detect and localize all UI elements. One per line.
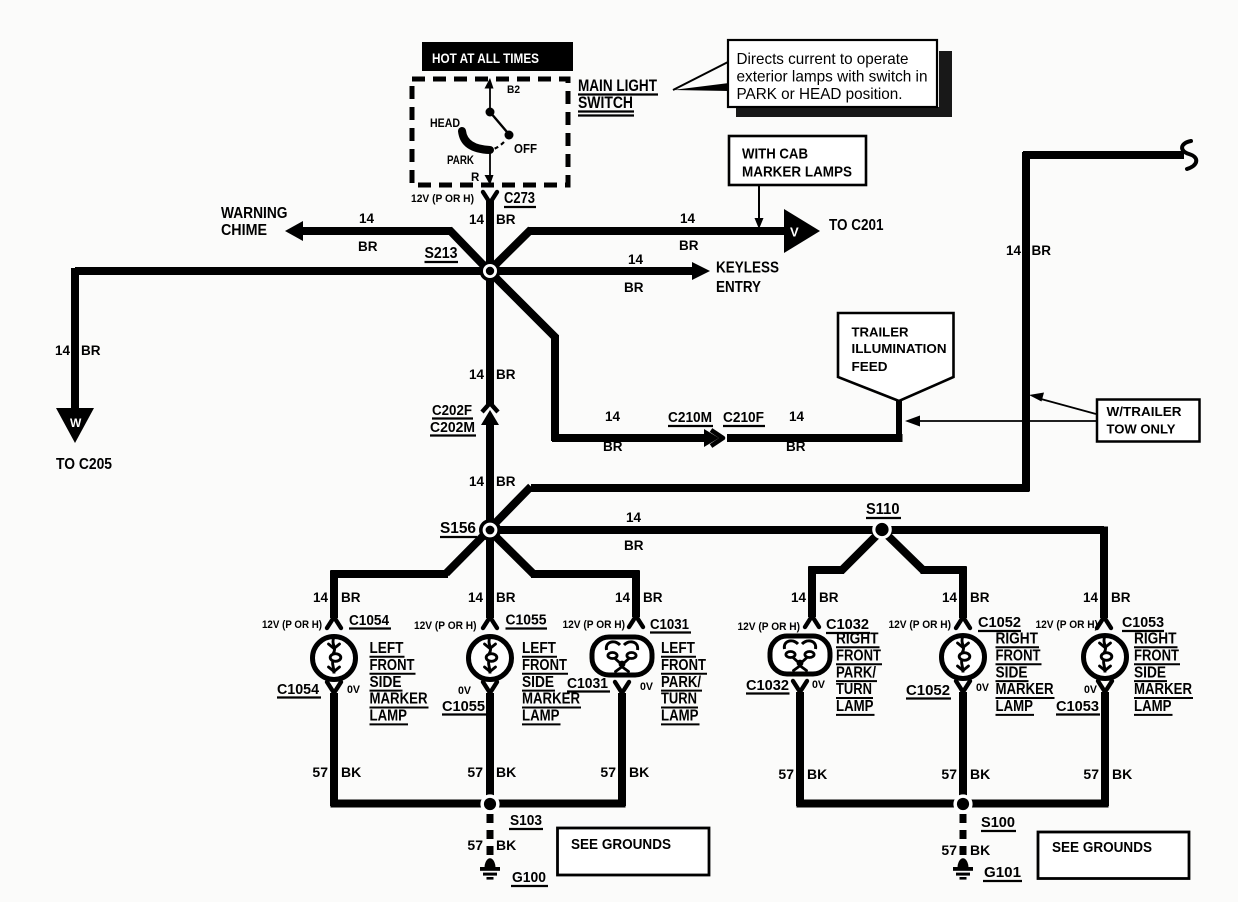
svg-text:C1052: C1052 <box>906 683 950 699</box>
svg-text:57: 57 <box>778 766 794 782</box>
label 14 BR lamp3 drop <box>615 590 663 605</box>
switch position arc HEAD-PARK <box>462 131 490 150</box>
svg-text:14: 14 <box>615 590 631 605</box>
label G100 <box>511 869 548 886</box>
svg-text:FRONT: FRONT <box>996 647 1042 664</box>
svg-text:S213: S213 <box>425 245 458 262</box>
svg-text:12V (P OR H): 12V (P OR H) <box>414 620 477 632</box>
svg-text:SIDE: SIDE <box>522 674 554 691</box>
label 14 BR above C202 <box>469 367 516 382</box>
label G101 <box>983 864 1022 881</box>
connector C1054 top <box>327 617 341 628</box>
svg-text:TRAILER: TRAILER <box>852 325 910 340</box>
svg-text:BR: BR <box>81 343 101 358</box>
svg-text:Directs current to operate: Directs current to operate <box>737 51 909 68</box>
svg-text:C1055: C1055 <box>506 613 547 629</box>
label KEYLESS ENTRY <box>716 260 779 297</box>
lamp C1053 right front side marker <box>1084 636 1127 679</box>
svg-text:CHIME: CHIME <box>221 222 267 239</box>
svg-text:ILLUMINATION: ILLUMINATION <box>852 341 947 356</box>
wire S213 left horizontal (14 BR) <box>75 267 490 275</box>
keyless arrowhead <box>692 262 710 280</box>
svg-text:BK: BK <box>807 766 827 782</box>
label S100 <box>981 814 1016 831</box>
wire left ground bus <box>331 800 626 808</box>
label 57 BK at G101 stub <box>941 842 990 858</box>
svg-text:LAMP: LAMP <box>522 708 560 725</box>
wire break squiggle S <box>1182 141 1196 169</box>
svg-text:FRONT: FRONT <box>522 657 568 674</box>
wire S110 right leg diagonal <box>881 529 924 571</box>
wire lamp6 to ground bus (57 BK) <box>1101 692 1109 806</box>
svg-text:G101: G101 <box>984 864 1021 881</box>
label 14 BR above S156 <box>469 474 516 489</box>
wire left vertical to C205 <box>71 268 79 409</box>
svg-text:FRONT: FRONT <box>661 657 707 674</box>
connector C1055 top <box>483 617 497 628</box>
svg-text:HEAD: HEAD <box>430 118 460 130</box>
svg-text:12V (P OR H): 12V (P OR H) <box>262 619 322 631</box>
svg-text:TO C201: TO C201 <box>829 217 884 234</box>
svg-text:BK: BK <box>970 766 990 782</box>
svg-text:BR: BR <box>786 439 806 454</box>
splice S110 <box>872 520 892 540</box>
svg-text:OFF: OFF <box>514 142 537 156</box>
power feed box HOT AT ALL TIMES <box>422 42 573 71</box>
svg-text:LEFT: LEFT <box>522 640 557 657</box>
wire warning chime branch horizontal <box>300 227 452 235</box>
svg-text:C1055: C1055 <box>442 699 485 715</box>
switch lever contact <box>490 112 514 140</box>
label LEFT FRONT PARK/TURN LAMP (C1031) <box>661 640 707 725</box>
label C1031 top <box>650 617 691 633</box>
arrowhead TO C205 (W) <box>56 408 94 443</box>
svg-text:C1054: C1054 <box>277 682 319 698</box>
svg-text:BK: BK <box>341 764 361 780</box>
wire to C201 horizontal <box>528 227 786 235</box>
box SEE GROUNDS left <box>558 828 710 875</box>
svg-text:TURN: TURN <box>836 681 872 698</box>
svg-text:SWITCH: SWITCH <box>578 94 633 112</box>
connector C1053 top <box>1097 617 1111 628</box>
svg-text:C1053: C1053 <box>1056 699 1099 715</box>
note callout pointer lines <box>673 62 729 91</box>
wire S156 right leg vertical <box>632 571 640 618</box>
label C1032 top <box>826 617 870 633</box>
svg-text:W: W <box>70 416 82 430</box>
splice S213 <box>480 261 501 282</box>
svg-text:57: 57 <box>600 764 616 780</box>
wire vertical x555 <box>551 335 559 441</box>
lamp C1032 right front park/turn <box>770 636 830 674</box>
label 14 BR left branch <box>55 343 101 358</box>
svg-text:FRONT: FRONT <box>370 657 416 674</box>
svg-text:0V: 0V <box>458 685 472 697</box>
svg-text:SEE GROUNDS: SEE GROUNDS <box>1052 840 1152 856</box>
svg-text:B2: B2 <box>507 84 520 96</box>
connector C202F/C202M <box>481 403 499 425</box>
wire S110 left leg vertical <box>808 567 816 618</box>
svg-text:MARKER: MARKER <box>1134 681 1192 698</box>
svg-text:S103: S103 <box>510 812 542 829</box>
callout box WITH CAB MARKER LAMPS <box>729 136 866 185</box>
svg-text:LAMP: LAMP <box>1134 698 1172 715</box>
svg-text:ENTRY: ENTRY <box>716 279 762 296</box>
svg-text:FEED: FEED <box>852 359 888 374</box>
svg-text:BR: BR <box>970 590 990 605</box>
svg-text:PARK or HEAD position.: PARK or HEAD position. <box>737 86 903 103</box>
svg-text:LAMP: LAMP <box>996 698 1034 715</box>
switch pin R output arrow <box>485 152 494 185</box>
label S110 <box>866 501 901 518</box>
label C1054 bottom <box>277 682 321 698</box>
svg-text:TOW ONLY: TOW ONLY <box>1107 423 1177 437</box>
wire S156 center leg vertical <box>486 530 494 618</box>
svg-text:C202M: C202M <box>430 420 475 436</box>
wire S156 right leg horizontal <box>531 570 640 578</box>
connector C1032 top <box>805 616 819 627</box>
svg-text:14: 14 <box>942 590 958 605</box>
svg-text:KEYLESS: KEYLESS <box>716 260 779 277</box>
svg-text:14: 14 <box>55 343 71 358</box>
svg-text:S110: S110 <box>866 501 900 518</box>
wire C273 to S213 (14 BR vertical) <box>486 201 494 404</box>
svg-text:BK: BK <box>629 764 649 780</box>
svg-text:14: 14 <box>1006 243 1022 258</box>
arrow from tow box to vertical wire <box>1029 393 1096 415</box>
label S213 <box>425 245 459 262</box>
svg-text:MARKER: MARKER <box>522 691 580 708</box>
label 57 BK lamp1 <box>312 764 361 780</box>
svg-text:14: 14 <box>680 211 696 226</box>
svg-text:57: 57 <box>467 837 483 853</box>
connector C1052 top <box>956 617 970 628</box>
svg-text:MAIN LIGHT: MAIN LIGHT <box>578 77 657 95</box>
connector C1055 bottom <box>483 682 497 693</box>
svg-text:RIGHT: RIGHT <box>836 631 879 648</box>
svg-text:RIGHT: RIGHT <box>996 631 1039 648</box>
svg-text:BR: BR <box>624 280 644 295</box>
svg-text:C202F: C202F <box>432 403 472 419</box>
svg-text:57: 57 <box>312 764 328 780</box>
label S156 <box>440 520 477 537</box>
label 57 BK lamp3 <box>600 764 649 780</box>
svg-text:0V: 0V <box>1084 684 1098 696</box>
ground G100 <box>480 858 500 879</box>
svg-text:BR: BR <box>496 367 516 382</box>
svg-text:BK: BK <box>496 837 516 853</box>
svg-text:SIDE: SIDE <box>1134 664 1166 681</box>
svg-text:C1054: C1054 <box>349 613 389 629</box>
label C1054 top <box>349 613 391 629</box>
svg-text:PARK/: PARK/ <box>836 664 877 681</box>
svg-text:LAMP: LAMP <box>836 698 874 715</box>
svg-text:C210F: C210F <box>723 410 764 426</box>
label LEFT FRONT SIDE MARKER LAMP (C1054) <box>370 640 429 725</box>
wire S156 left leg diagonal <box>446 529 490 574</box>
svg-text:MARKER LAMPS: MARKER LAMPS <box>742 164 852 181</box>
wire C210 right segment <box>727 434 903 442</box>
svg-text:LEFT: LEFT <box>370 640 405 657</box>
wire S156 upper horizontal y488 <box>531 484 1030 492</box>
note box (Directs current...) <box>728 40 952 117</box>
label RIGHT FRONT PARK/TURN LAMP (C1032) <box>836 631 882 716</box>
svg-text:BR: BR <box>643 590 663 605</box>
pointer from WITH CAB box to wire <box>755 185 764 229</box>
svg-text:BK: BK <box>970 842 990 858</box>
wire diagonal S213 down-right <box>488 270 556 338</box>
wire lamp2 to ground bus (57 BK) <box>486 693 494 806</box>
svg-text:14: 14 <box>628 252 644 267</box>
wire diagonal S213 up-right <box>488 230 531 273</box>
lamp C1054 left front side marker <box>313 637 356 680</box>
wire lamp4 to ground bus (57 BK) <box>796 692 804 806</box>
svg-text:TO C205: TO C205 <box>56 456 112 473</box>
lamp C1031 left front park/turn <box>592 637 652 675</box>
svg-text:14: 14 <box>469 367 485 382</box>
svg-text:WITH CAB: WITH CAB <box>742 146 808 163</box>
svg-text:W/TRAILER: W/TRAILER <box>1107 405 1182 419</box>
switch pin B2 feed arrow <box>485 78 494 112</box>
wire lamp6 drop vertical <box>1100 527 1108 619</box>
svg-text:BR: BR <box>603 439 623 454</box>
svg-text:14: 14 <box>359 211 375 226</box>
svg-text:RIGHT: RIGHT <box>1134 631 1177 648</box>
label 14 BR lamp4 drop <box>791 590 839 605</box>
svg-text:12V (P OR H): 12V (P OR H) <box>889 619 952 631</box>
svg-text:BR: BR <box>1032 243 1052 258</box>
label C1053 bottom <box>1056 699 1100 715</box>
label WARNING CHIME <box>221 205 288 239</box>
label 57 BK lamp6 <box>1083 766 1132 782</box>
wire S156 to S110 (14 BR) <box>490 526 1104 534</box>
svg-text:HOT AT ALL TIMES: HOT AT ALL TIMES <box>432 50 539 66</box>
svg-text:C273: C273 <box>504 190 535 207</box>
svg-text:BR: BR <box>358 239 378 254</box>
label 14 BR lamp5 drop <box>942 590 990 605</box>
ground G101 <box>953 858 973 879</box>
svg-text:R: R <box>471 172 480 184</box>
svg-text:SIDE: SIDE <box>996 664 1028 681</box>
svg-text:BR: BR <box>496 474 516 489</box>
svg-text:0V: 0V <box>640 681 654 693</box>
connector C1031 top <box>629 616 643 627</box>
label 14 BR lamp2 drop <box>468 590 516 605</box>
svg-text:0V: 0V <box>812 679 826 691</box>
wire lamp3 to ground bus (57 BK) <box>618 693 626 806</box>
svg-text:14: 14 <box>791 590 807 605</box>
label C210F <box>723 410 765 426</box>
wire S110 to lamp6 horizontal <box>1101 526 1105 534</box>
svg-text:C1032: C1032 <box>746 678 789 694</box>
svg-text:S100: S100 <box>981 814 1015 831</box>
label 14 BR lamp1 drop <box>313 590 361 605</box>
svg-text:12V (P OR H): 12V (P OR H) <box>563 619 626 631</box>
svg-text:WARNING: WARNING <box>221 205 288 222</box>
label C202F <box>432 403 473 419</box>
switch dashed travel link <box>491 142 504 150</box>
svg-text:BR: BR <box>496 212 516 227</box>
wire S156 left leg horizontal <box>331 570 449 578</box>
label 14 BR below C273 <box>469 212 516 227</box>
trailer illumination feed pentagon <box>838 313 954 401</box>
wire C210 left segment (14 BR) <box>552 434 706 442</box>
svg-text:0V: 0V <box>976 682 990 694</box>
main light switch dashed enclosure <box>412 79 568 185</box>
svg-text:C210M: C210M <box>668 410 712 426</box>
label RIGHT FRONT SIDE MARKER LAMP (C1053) <box>1134 631 1193 716</box>
wire right ground bus <box>797 800 1109 808</box>
wire right vertical (14 BR) <box>1022 152 1030 491</box>
wire dashed stub to G101 <box>960 814 967 856</box>
svg-text:57: 57 <box>467 764 483 780</box>
lamp C1055 left front side marker <box>469 637 512 680</box>
box SEE GROUNDS right <box>1038 832 1189 879</box>
label LEFT FRONT SIDE MARKER LAMP (C1055) <box>522 640 581 725</box>
svg-text:57: 57 <box>941 766 957 782</box>
splice S103 <box>480 794 499 813</box>
connector C1054 bottom <box>327 682 341 693</box>
wire trailer feed stub <box>896 400 902 440</box>
svg-text:BR: BR <box>341 590 361 605</box>
lamp C1052 right front side marker <box>942 636 985 679</box>
label RIGHT FRONT SIDE MARKER LAMP (C1052) <box>996 631 1055 716</box>
svg-text:14: 14 <box>313 590 329 605</box>
svg-text:14: 14 <box>468 590 484 605</box>
label S103 <box>509 812 543 829</box>
svg-text:12V (P OR H): 12V (P OR H) <box>411 193 474 205</box>
label C1032 bottom <box>746 678 790 694</box>
connector C1053 bottom <box>1098 681 1112 692</box>
svg-text:SIDE: SIDE <box>370 674 402 691</box>
wire C202 to S156 <box>486 423 494 530</box>
wire top-right horizontal <box>1023 151 1184 159</box>
svg-text:FRONT: FRONT <box>1134 647 1180 664</box>
svg-text:S156: S156 <box>440 520 476 537</box>
svg-text:C1052: C1052 <box>978 615 1021 631</box>
wire S110 left leg horizontal <box>809 566 845 574</box>
label C210M <box>668 410 713 426</box>
svg-text:14: 14 <box>469 474 485 489</box>
wire S213 right to keyless <box>490 267 693 275</box>
svg-text:14: 14 <box>605 409 621 424</box>
wire S156 right leg diagonal <box>488 529 534 575</box>
connector C210M/C210F <box>704 429 723 447</box>
svg-text:BK: BK <box>1112 766 1132 782</box>
label C1055 top <box>506 613 548 629</box>
label C1052 bottom <box>906 683 951 699</box>
connector C273 <box>483 192 497 203</box>
wire S110 left leg diagonal <box>841 529 883 571</box>
svg-text:exterior lamps with switch in: exterior lamps with switch in <box>737 69 928 86</box>
svg-text:PARK/: PARK/ <box>661 674 702 691</box>
svg-text:12V (P OR H): 12V (P OR H) <box>1036 619 1099 631</box>
svg-text:12V (P OR H): 12V (P OR H) <box>738 621 801 633</box>
arrow from tow box to trailer stub <box>905 416 1096 427</box>
svg-text:BR: BR <box>679 238 699 253</box>
warning chime arrowhead <box>285 221 303 241</box>
connector C1032 bottom <box>793 681 807 692</box>
svg-text:MARKER: MARKER <box>370 691 428 708</box>
label C1053 top <box>1122 615 1164 631</box>
svg-text:G100: G100 <box>512 869 546 886</box>
svg-text:C1031: C1031 <box>567 676 608 692</box>
box W/TRAILER TOW ONLY <box>1097 400 1200 442</box>
svg-text:C1031: C1031 <box>650 617 689 633</box>
arrowhead TO C201 (V) <box>784 209 820 253</box>
wire lamp1 to ground bus (57 BK) <box>330 693 338 806</box>
svg-text:BR: BR <box>819 590 839 605</box>
label C273 <box>504 190 536 207</box>
splice S156 <box>479 519 501 541</box>
svg-text:BR: BR <box>1111 590 1131 605</box>
label MAIN LIGHT SWITCH <box>578 77 658 116</box>
svg-text:C1053: C1053 <box>1122 615 1164 631</box>
svg-text:LEFT: LEFT <box>661 640 696 657</box>
svg-text:LAMP: LAMP <box>661 708 699 725</box>
label 57 BK lamp5 <box>941 766 990 782</box>
svg-text:TURN: TURN <box>661 691 697 708</box>
wire diagonal into S156 <box>488 487 531 531</box>
label C1031 bottom <box>567 676 610 692</box>
svg-text:0V: 0V <box>347 684 361 696</box>
splice S100 <box>953 794 972 813</box>
wire S110 right leg vertical <box>959 567 967 619</box>
label 14 BR lamp6 drop <box>1083 590 1131 605</box>
label 57 BK lamp2 <box>467 764 516 780</box>
svg-text:V: V <box>790 225 799 240</box>
wire S110 right leg horizontal <box>921 566 967 574</box>
svg-text:MARKER: MARKER <box>996 681 1054 698</box>
label C1055 bottom <box>442 699 486 715</box>
svg-text:LAMP: LAMP <box>370 708 408 725</box>
wire S156 left leg vertical <box>330 571 338 619</box>
svg-text:14: 14 <box>789 409 805 424</box>
label 57 BK at G100 stub <box>467 837 516 853</box>
svg-text:BR: BR <box>624 538 644 553</box>
switch pivot node <box>486 108 495 117</box>
svg-text:FRONT: FRONT <box>836 647 882 664</box>
label 14 BR right vertical <box>1006 243 1051 258</box>
svg-text:14: 14 <box>469 212 485 227</box>
label C1052 top <box>978 615 1021 631</box>
svg-text:PARK: PARK <box>447 155 475 167</box>
svg-text:BR: BR <box>496 590 516 605</box>
connector C1052 bottom <box>956 681 970 692</box>
wire diagonal S213 up-left <box>449 230 490 273</box>
connector C1031 bottom <box>615 682 629 693</box>
label 57 BK lamp4 <box>778 766 827 782</box>
svg-text:57: 57 <box>1083 766 1099 782</box>
label C202M <box>430 420 476 436</box>
wire lamp5 to ground bus (57 BK) <box>959 692 967 806</box>
svg-text:SEE GROUNDS: SEE GROUNDS <box>571 837 671 853</box>
svg-text:14: 14 <box>626 510 642 525</box>
wire dashed stub to G100 <box>487 814 494 856</box>
svg-text:14: 14 <box>1083 590 1099 605</box>
svg-text:BK: BK <box>496 764 516 780</box>
svg-text:57: 57 <box>941 842 957 858</box>
